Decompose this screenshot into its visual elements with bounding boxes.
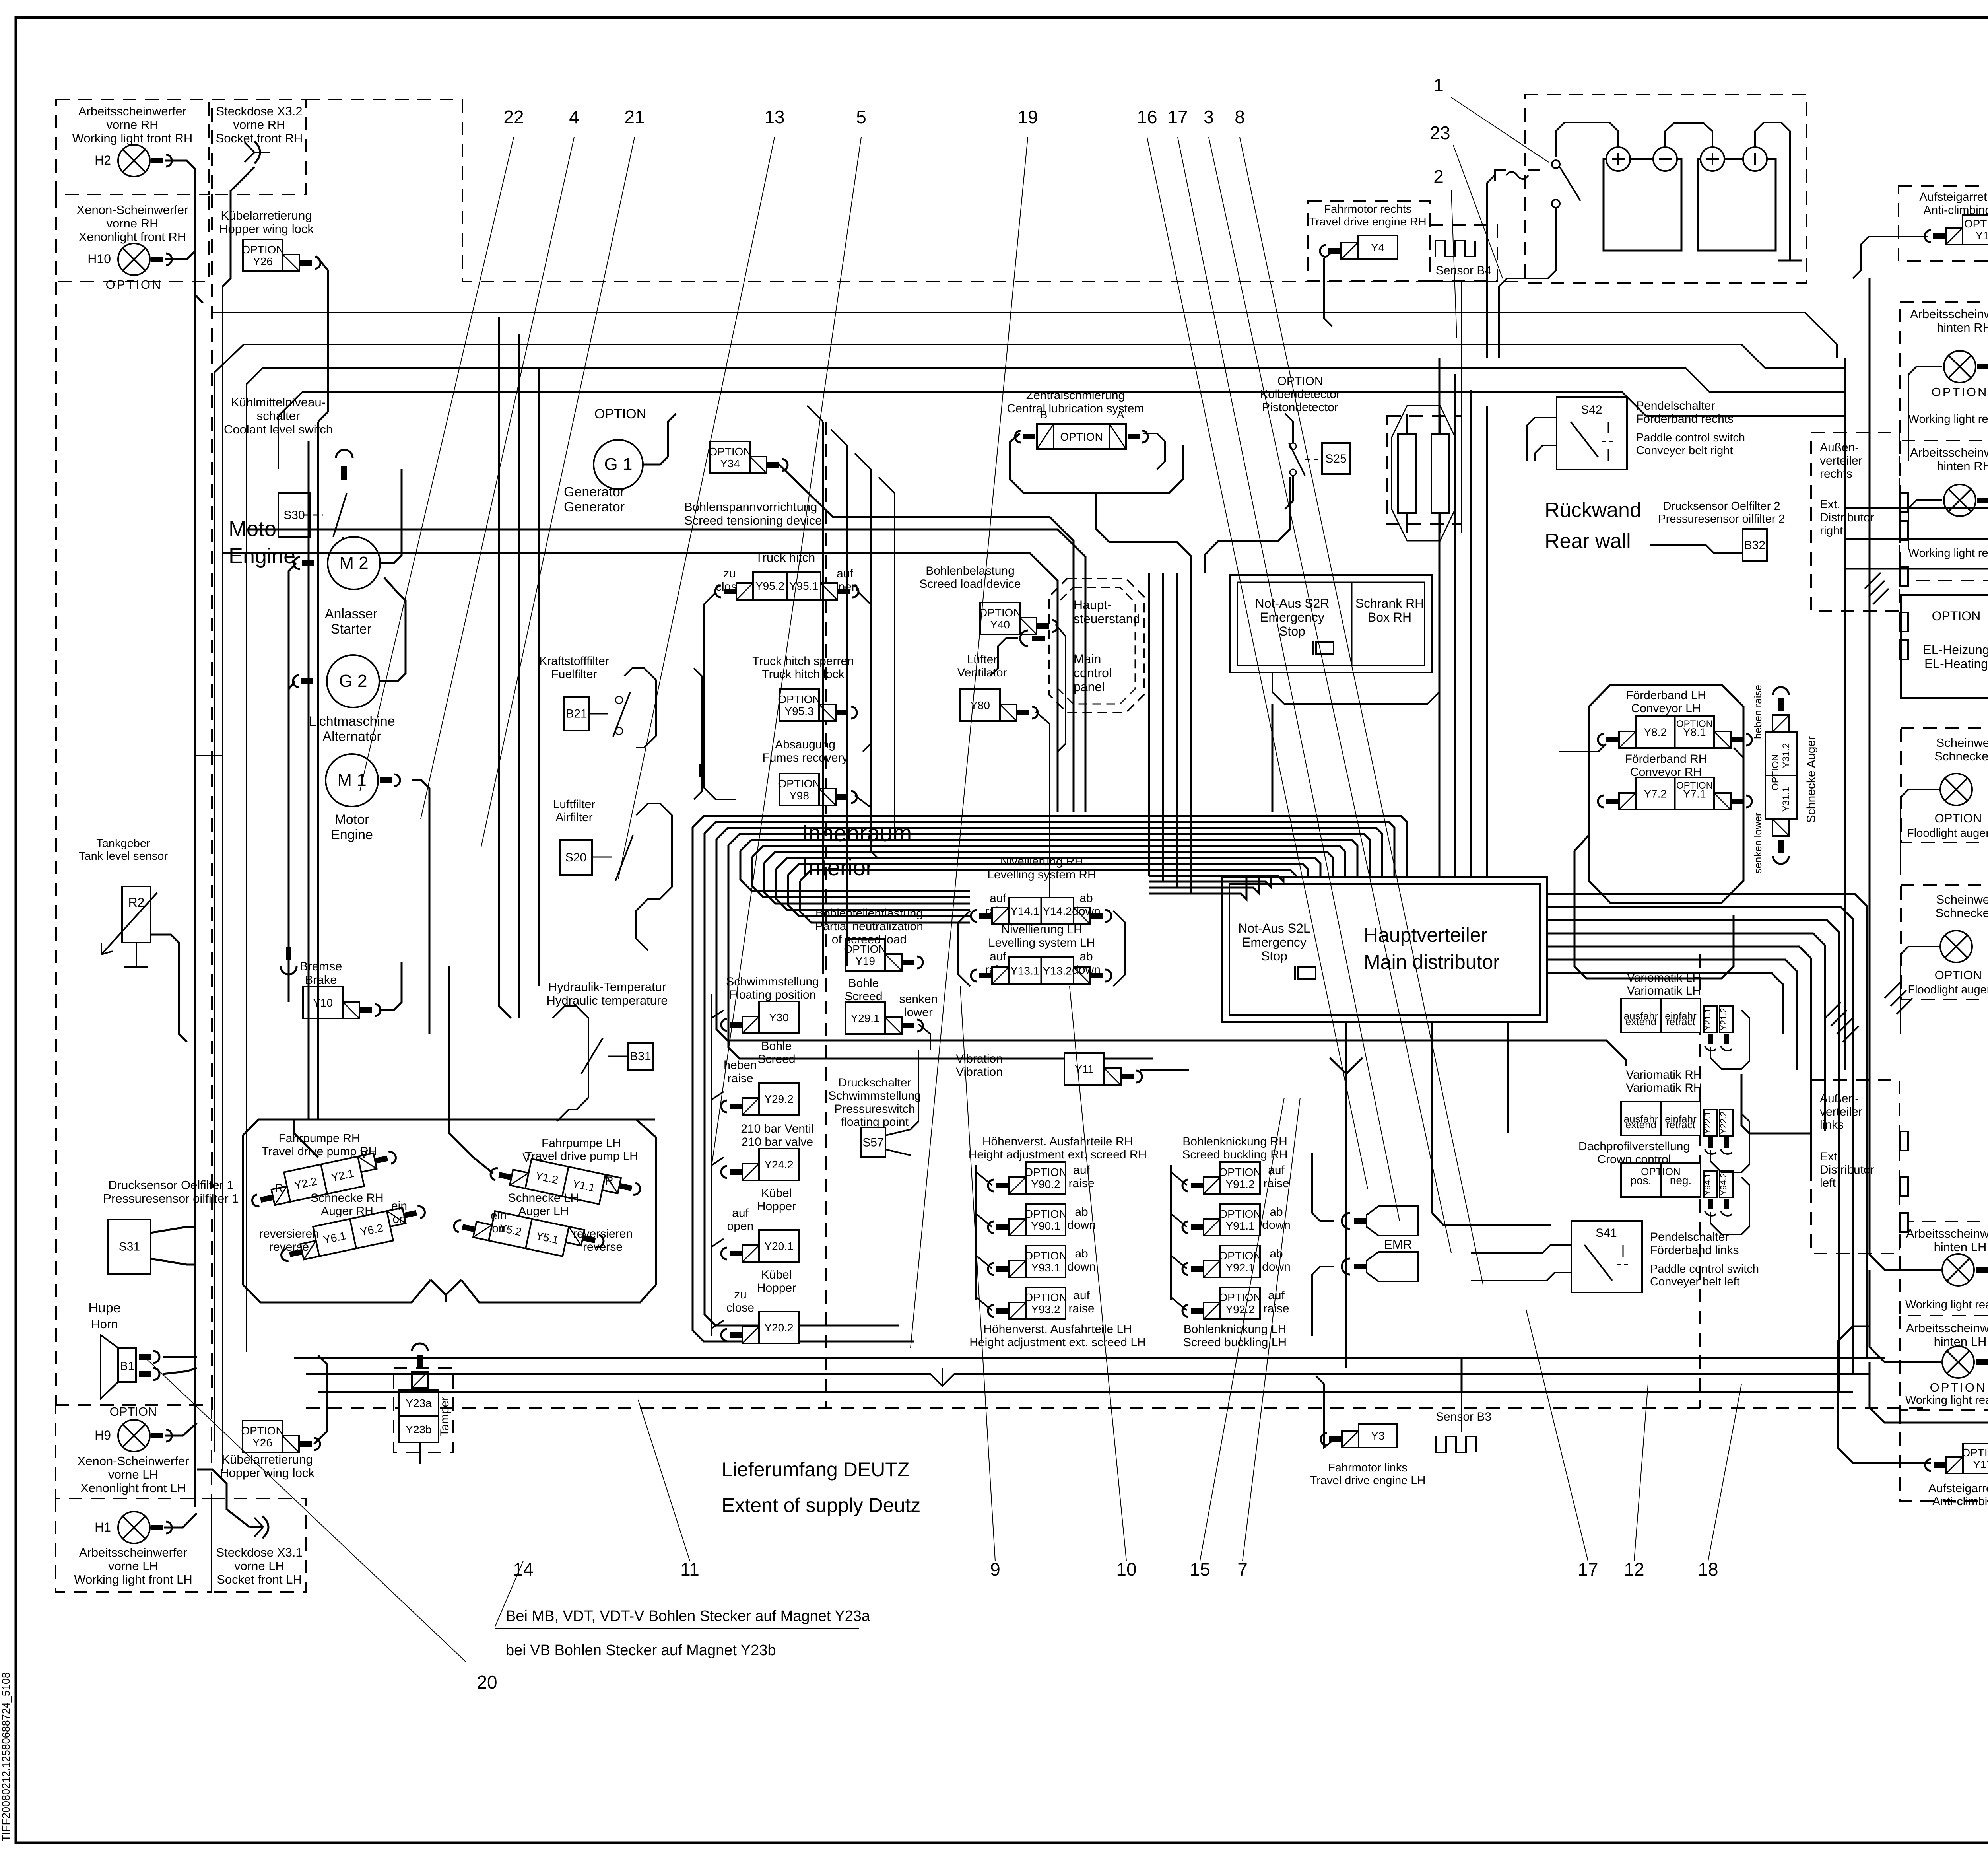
- svg-text:Bohlenknickung RH: Bohlenknickung RH: [1182, 1135, 1287, 1148]
- leader line 8: [1240, 137, 1483, 1285]
- svg-text:Height adjustment ext. screed: Height adjustment ext. screed RH: [969, 1148, 1147, 1161]
- svg-text:Socket front LH: Socket front LH: [217, 1572, 302, 1586]
- bus left horizontal 2: [223, 553, 1058, 812]
- wire fan into hauptverteiler top: [693, 827, 914, 1341]
- lamp H4 working light rear RH: [1944, 484, 1988, 516]
- wire H10 to junction: [165, 251, 195, 259]
- lamp floodlight auger RH: [1940, 774, 1972, 805]
- svg-text:OPTION: OPTION: [1676, 780, 1713, 791]
- svg-text:16: 16: [1137, 107, 1157, 127]
- svg-text:OPTION: OPTION: [1024, 1291, 1067, 1304]
- switch actuator symbol: [1495, 170, 1540, 181]
- svg-text:raise: raise: [1068, 1177, 1094, 1190]
- leader line 22: [360, 137, 514, 791]
- valve Y19 partial neutralization: [844, 939, 923, 971]
- mid trunk to truck hitch: [822, 835, 824, 974]
- valve Y17 anti-climbing LH: [1925, 1444, 1988, 1473]
- svg-text:Emergency: Emergency: [1242, 935, 1307, 949]
- wire pump bus top: [258, 1119, 655, 1121]
- bus vertical bundle pre-HV 3: [1176, 573, 1178, 888]
- valve Y3 travel drive LH: [1321, 1424, 1397, 1448]
- svg-text:Nivellierung RH: Nivellierung RH: [1000, 855, 1083, 868]
- hatch marks ext distributor left 1: [1825, 1002, 1859, 1042]
- svg-text:Kübelarretierung: Kübelarretierung: [221, 1452, 313, 1466]
- svg-text:Drucksensor Oelfilter 2: Drucksensor Oelfilter 2: [1663, 500, 1780, 513]
- svg-text:Y14.2: Y14.2: [1043, 905, 1072, 917]
- svg-text:steuerstand: steuerstand: [1074, 612, 1140, 626]
- connector lug right 5: [1900, 640, 1908, 659]
- svg-text:Xenonlight front LH: Xenonlight front LH: [80, 1481, 186, 1495]
- emergency stop button S2L icon: [1298, 967, 1316, 979]
- EMR plug 1: [1354, 1218, 1366, 1224]
- svg-text:Bei MB, VDT, VDT-V Bohlen Stec: Bei MB, VDT, VDT-V Bohlen Stecker auf Ma…: [506, 1608, 870, 1625]
- svg-text:Y4: Y4: [1371, 241, 1384, 254]
- fan top to mid trunk 1: [807, 406, 823, 422]
- svg-text:Tamper: Tamper: [438, 1397, 451, 1436]
- svg-text:OPTION: OPTION: [1060, 431, 1103, 443]
- dashed left machine column inner: [211, 194, 213, 1410]
- svg-text:Arbeitsscheinwerfer: Arbeitsscheinwerfer: [78, 104, 186, 118]
- svg-text:Y18: Y18: [1976, 229, 1988, 242]
- lamp H2 working light front RH: [95, 145, 172, 177]
- svg-text:Sensor B3: Sensor B3: [1436, 1410, 1491, 1423]
- wire R2 right: [151, 935, 187, 1042]
- wire stub Y93.1: [976, 1256, 992, 1269]
- sensor B4 squarewave: [1435, 241, 1475, 257]
- sensor S25 piston detector: [1322, 443, 1350, 474]
- svg-text:OPTION: OPTION: [978, 606, 1021, 619]
- svg-text:Y34: Y34: [720, 457, 740, 470]
- wire right column trunk: [1844, 358, 1846, 1070]
- sensor S20 airfilter: [560, 840, 592, 875]
- svg-text:Y24.2: Y24.2: [764, 1158, 793, 1171]
- socket X3.1 symbol: [250, 1516, 268, 1538]
- schrank RH box inner: [1237, 582, 1425, 665]
- wire feeder cascade 1: [1846, 508, 1988, 604]
- svg-text:Hydraulic temperature: Hydraulic temperature: [547, 993, 668, 1007]
- wire pump group outline RH: [243, 1119, 431, 1302]
- svg-text:23: 23: [1430, 122, 1450, 143]
- dashed box working light rear LH zone 2: [1900, 1316, 1988, 1410]
- svg-text:Höhenverst. Ausfahrteile LH: Höhenverst. Ausfahrteile LH: [983, 1323, 1132, 1336]
- wire socket X3.2 down: [223, 167, 254, 286]
- wire Y95 right down: [859, 593, 871, 752]
- svg-text:M 2: M 2: [339, 553, 368, 573]
- wire fuse 1 bottom: [1406, 513, 1408, 533]
- fuse 1: [1398, 434, 1416, 513]
- svg-text:13: 13: [764, 107, 784, 127]
- svg-text:auf: auf: [837, 567, 853, 580]
- svg-text:Fahrpumpe RH: Fahrpumpe RH: [278, 1132, 360, 1145]
- wire stub floating col 2: [712, 1092, 724, 1100]
- wire hauptsteuerstand left: [990, 638, 1018, 676]
- leader line bottom 7: [1242, 1098, 1300, 1561]
- lamp floodlight auger LH: [1940, 931, 1972, 962]
- svg-text:Variomatik LH: Variomatik LH: [1627, 984, 1701, 997]
- wire H4 left: [1908, 500, 1942, 549]
- svg-text:auf: auf: [732, 1207, 749, 1220]
- mid trunk 2: [846, 445, 848, 835]
- svg-text:Motor: Motor: [335, 812, 369, 827]
- svg-text:Working light rear RH: Working light rear RH: [1908, 547, 1988, 560]
- switch S41 symbol: [1584, 1245, 1629, 1281]
- wire Y3 feed: [1316, 1376, 1335, 1448]
- svg-text:R2: R2: [128, 895, 145, 910]
- wire feeder cascade 2: [1846, 539, 1988, 624]
- bus wire top 3: [247, 368, 262, 1352]
- wire Y18 left: [1853, 237, 1928, 278]
- hatch marks ext distributor left 2: [1885, 982, 1912, 1014]
- svg-text:Travel drive engine LH: Travel drive engine LH: [1310, 1474, 1426, 1487]
- dashed box working light rear RH zone 2: [1900, 441, 1988, 581]
- lamp H1 working light front LH: [95, 1512, 172, 1543]
- svg-text:Y14.1: Y14.1: [1010, 905, 1039, 917]
- svg-text:OPTION: OPTION: [1219, 1208, 1261, 1220]
- svg-text:Hopper: Hopper: [757, 1200, 796, 1213]
- wire stub Y92.2: [1171, 1297, 1187, 1310]
- svg-text:Sensor B4: Sensor B4: [1436, 264, 1491, 277]
- svg-text:Engine: Engine: [331, 827, 373, 842]
- left trunk 3: [317, 422, 319, 1119]
- wire M2 right exit: [380, 469, 402, 563]
- svg-text:OPTION: OPTION: [1277, 375, 1323, 388]
- svg-text:Screed load device: Screed load device: [919, 577, 1021, 591]
- bus wire bottom 1: [294, 1357, 1885, 1359]
- leader line 2: [1451, 190, 1457, 338]
- svg-text:Xenon-Scheinwerfer: Xenon-Scheinwerfer: [77, 203, 188, 217]
- connector plug filters: [699, 764, 705, 777]
- svg-text:EL-Heizung: EL-Heizung: [1923, 643, 1988, 657]
- svg-text:Floodlight auger LH: Floodlight auger LH: [1908, 983, 1988, 996]
- wire pump V junction: [431, 1280, 461, 1295]
- svg-text:Not-Aus S2L: Not-Aus S2L: [1238, 921, 1310, 935]
- svg-text:lower: lower: [904, 1006, 933, 1019]
- schrank RH divider: [1351, 582, 1353, 665]
- valve Y26 hopper wing lock RH: [241, 239, 320, 271]
- wire S42 feed 2: [1535, 445, 1557, 461]
- wire H3 left: [1870, 1054, 1941, 1270]
- dashed box xenon front LH zone: [56, 1405, 212, 1498]
- svg-text:Hopper wing lock: Hopper wing lock: [220, 1466, 315, 1480]
- svg-text:Working light rear RH: Working light rear RH: [1908, 413, 1988, 426]
- svg-text:Pressuresensor oilfilter 1: Pressuresensor oilfilter 1: [103, 1191, 239, 1205]
- wire stub floating col 1: [712, 1010, 724, 1018]
- svg-text:senken: senken: [899, 993, 938, 1006]
- svg-text:Ext.: Ext.: [1820, 498, 1840, 511]
- svg-text:S25: S25: [1325, 452, 1346, 465]
- svg-text:Hydraulik-Temperatur: Hydraulik-Temperatur: [548, 980, 666, 994]
- svg-text:OPTION: OPTION: [1964, 218, 1988, 230]
- wire S31 out 2: [151, 1259, 195, 1265]
- svg-text:OPTION: OPTION: [110, 1405, 157, 1419]
- svg-text:Y23a: Y23a: [406, 1397, 432, 1409]
- svg-text:Y94.1: Y94.1: [1703, 1173, 1712, 1196]
- svg-text:OPTION: OPTION: [1219, 1166, 1261, 1178]
- svg-text:Y21.2: Y21.2: [1718, 1008, 1728, 1031]
- wire rear RH feed: [1908, 422, 1909, 461]
- svg-text:Lieferumfang DEUTZ: Lieferumfang DEUTZ: [722, 1458, 909, 1481]
- svg-text:Generator: Generator: [564, 484, 625, 499]
- valve pos neg crown control: [1621, 1163, 1701, 1197]
- generator G2 alternator: [327, 655, 379, 707]
- connector lug right 4: [1900, 612, 1908, 632]
- wire M2 G2 junction right: [380, 577, 406, 681]
- wire stub floating col 3: [712, 1157, 724, 1165]
- svg-text:ab: ab: [1079, 950, 1093, 963]
- wire switch down: [1499, 239, 1556, 358]
- svg-text:V: V: [522, 1151, 530, 1164]
- left trunk junction: [195, 755, 223, 756]
- svg-text:Conveyer belt right: Conveyer belt right: [1636, 444, 1733, 457]
- svg-text:Pendelschalter: Pendelschalter: [1636, 399, 1715, 412]
- svg-text:Y98: Y98: [789, 789, 809, 802]
- svg-text:bei VB Bohlen Stecker auf Magn: bei VB Bohlen Stecker auf Magnet Y23b: [506, 1642, 776, 1659]
- valve Y11 vibration: [1064, 1053, 1142, 1085]
- dashed box working light front LH zone: [56, 1498, 212, 1592]
- connector lug left 3: [1900, 1213, 1908, 1232]
- svg-text:5: 5: [856, 107, 866, 127]
- valve Y20.2 hopper close: [721, 1312, 799, 1343]
- svg-text:Paddle control switch: Paddle control switch: [1636, 431, 1745, 444]
- wire lubrication drop: [1096, 493, 1191, 573]
- valve ausfahr einfahr variomatik LH: [1621, 999, 1701, 1032]
- svg-text:heben raise: heben raise: [1752, 685, 1764, 739]
- wire lubrication right: [1143, 433, 1165, 469]
- wire stub Y90.2: [976, 1172, 992, 1185]
- bus left horizontal 1: [247, 529, 1085, 812]
- leader line 5: [712, 137, 861, 1165]
- wire hv bottom drop 3: [1507, 1022, 1509, 1133]
- battery master switch: [1552, 160, 1580, 239]
- svg-text:EMR: EMR: [1384, 1237, 1412, 1252]
- svg-text:control: control: [1074, 666, 1112, 680]
- mid trunk2 to innenraum: [846, 835, 848, 966]
- wire B1 to bus 2: [163, 1368, 197, 1374]
- svg-text:Interior: Interior: [802, 855, 874, 880]
- svg-text:reverse: reverse: [583, 1240, 623, 1254]
- svg-text:4: 4: [569, 107, 579, 127]
- svg-text:Luftfilter: Luftfilter: [553, 798, 596, 811]
- valve central lubrication OPTION: [1015, 424, 1148, 449]
- svg-text:Floodlight auger RH: Floodlight auger RH: [1907, 827, 1988, 840]
- tank level sensor R2: [101, 886, 157, 954]
- svg-text:extend: extend: [1625, 1016, 1656, 1028]
- mid trunk 1: [822, 422, 824, 835]
- lamp H5 working light rear LH: [1930, 1346, 1988, 1394]
- wire pump V drop: [445, 1295, 447, 1302]
- wire hv bottom drop 1: [1345, 1022, 1347, 1368]
- sensor S57 pressure switch: [861, 1127, 885, 1157]
- valve ausfahr einfahr variomatik RH: [1621, 1102, 1701, 1135]
- wire lubrication loop: [1010, 433, 1183, 493]
- svg-text:Y20.2: Y20.2: [764, 1322, 793, 1334]
- svg-text:Y26: Y26: [252, 1436, 272, 1449]
- svg-text:Arbeitsscheinwerfer: Arbeitsscheinwerfer: [1906, 1226, 1988, 1240]
- wire sensor B3 up: [1461, 1392, 1462, 1432]
- svg-text:auf: auf: [990, 892, 1006, 905]
- svg-text:OPTION: OPTION: [709, 445, 751, 458]
- EL-Heizung box: [1901, 595, 1988, 698]
- leader line 21: [481, 137, 635, 847]
- leader line 20: [145, 1357, 466, 1662]
- svg-text:ab: ab: [1075, 1247, 1088, 1260]
- wire Y10 right up: [379, 962, 402, 1010]
- svg-text:Y95.3: Y95.3: [784, 705, 813, 717]
- wire hoehenverst col: [975, 1165, 977, 1300]
- svg-text:Bohlenspannvorrichtung: Bohlenspannvorrichtung: [684, 500, 817, 514]
- hauptsteuerstand plug: [1032, 636, 1045, 641]
- svg-text:down: down: [1067, 1219, 1096, 1232]
- svg-text:Schrank RH: Schrank RH: [1355, 596, 1424, 610]
- svg-text:Y22.1: Y22.1: [1703, 1111, 1712, 1134]
- svg-text:Hupe: Hupe: [88, 1300, 120, 1316]
- svg-text:Rear wall: Rear wall: [1545, 530, 1631, 553]
- svg-text:zu: zu: [734, 1288, 747, 1301]
- svg-text:Aufsteigarretierung LH: Aufsteigarretierung LH: [1928, 1482, 1988, 1495]
- wire stub floating col 5: [712, 1320, 724, 1328]
- switch S41 box: [1571, 1221, 1642, 1292]
- dashed top machine boundary: [306, 99, 462, 100]
- svg-text:left: left: [1820, 1176, 1836, 1189]
- svg-text:H2: H2: [95, 153, 111, 167]
- motor M2 plug: [302, 560, 314, 566]
- svg-text:Screed tensioning device: Screed tensioning device: [684, 513, 822, 527]
- wire airfilter loop: [636, 803, 672, 950]
- svg-text:OPTION: OPTION: [1935, 968, 1982, 982]
- svg-text:right: right: [1820, 524, 1843, 537]
- wire crown drop: [1710, 1177, 1749, 1234]
- svg-text:raise: raise: [1263, 1177, 1289, 1190]
- svg-text:OPTION: OPTION: [1024, 1208, 1067, 1220]
- svg-text:Generator: Generator: [564, 499, 625, 515]
- svg-text:G 1: G 1: [604, 455, 633, 474]
- svg-text:verteiler: verteiler: [1820, 454, 1862, 467]
- wire sensor B4 down: [1461, 281, 1462, 533]
- svg-text:Y90.1: Y90.1: [1031, 1220, 1060, 1232]
- svg-text:vorne RH: vorne RH: [233, 118, 285, 132]
- socket X3.2 symbol: [245, 141, 270, 163]
- left trunk 2: [222, 286, 223, 1471]
- svg-text:Y93.1: Y93.1: [1031, 1261, 1060, 1274]
- battery cell block 2: [1698, 159, 1776, 251]
- svg-text:vorne LH: vorne LH: [108, 1559, 158, 1573]
- switch B21: [589, 692, 630, 737]
- svg-text:Y40: Y40: [990, 618, 1010, 631]
- dashed box socket front LH zone: [212, 1498, 306, 1592]
- svg-text:extend: extend: [1625, 1119, 1656, 1131]
- svg-text:open: open: [727, 1220, 754, 1233]
- svg-text:Bohle: Bohle: [848, 977, 879, 990]
- svg-text:heben: heben: [724, 1059, 757, 1072]
- svg-text:ab: ab: [1079, 892, 1093, 905]
- svg-text:Y30: Y30: [769, 1011, 789, 1024]
- wire bohlenknickung col: [1170, 1165, 1172, 1300]
- svg-text:Y22.2: Y22.2: [1718, 1111, 1728, 1134]
- battery cell block 1: [1604, 159, 1681, 251]
- svg-text:Box RH: Box RH: [1368, 610, 1411, 624]
- svg-text:2: 2: [1433, 166, 1444, 187]
- connector lug right 2: [1900, 521, 1908, 540]
- svg-text:Y26: Y26: [253, 255, 273, 268]
- leader line bottom 15: [1200, 1098, 1284, 1561]
- svg-text:3: 3: [1204, 107, 1214, 127]
- wire stub Y91.2: [1171, 1172, 1187, 1185]
- svg-text:H10: H10: [87, 252, 111, 266]
- bus right of HV 3: [1547, 920, 1839, 1392]
- svg-text:Anti-climbing lock LH: Anti-climbing lock LH: [1932, 1495, 1988, 1508]
- svg-text:Steckdose X3.2: Steckdose X3.2: [216, 104, 302, 118]
- wire right column trunk2: [1869, 278, 1871, 1054]
- bus wire bottom 3: [318, 1391, 1853, 1393]
- lamp H3 working light rear LH: [1942, 1254, 1988, 1286]
- fuse 2: [1431, 434, 1449, 513]
- svg-text:Working light rear LH: Working light rear LH: [1905, 1298, 1988, 1311]
- sensor B21 fuelfilter: [564, 697, 589, 731]
- svg-text:zu: zu: [723, 567, 736, 580]
- wire battery drop 4 into hauptverteiler: [1486, 406, 1488, 877]
- svg-text:Lüfter: Lüfter: [967, 653, 998, 666]
- svg-text:Absaugung: Absaugung: [775, 738, 835, 751]
- switch S20: [592, 835, 633, 881]
- svg-text:Screed: Screed: [757, 1053, 795, 1066]
- svg-text:Dachprofilverstellung: Dachprofilverstellung: [1578, 1140, 1690, 1153]
- svg-text:12: 12: [1624, 1559, 1644, 1580]
- svg-text:OPTION: OPTION: [778, 777, 820, 790]
- svg-text:senken lower: senken lower: [1752, 812, 1764, 874]
- valve pair Y7.2 Y7.1 conveyor RH: [1598, 777, 1752, 810]
- lamp H10 xenon front RH: [87, 243, 172, 292]
- valve Y23 actuator: [412, 1343, 428, 1388]
- svg-text:Aufsteigarretierung RH: Aufsteigarretierung RH: [1919, 190, 1988, 204]
- svg-text:Y17: Y17: [1973, 1458, 1988, 1471]
- svg-text:Truck hitch sperren: Truck hitch sperren: [752, 655, 854, 668]
- valve pair Y5.2 Y5.1 auger LH: [452, 1203, 605, 1264]
- valve pair Y31.1 Y31.2 auger: [1765, 687, 1797, 864]
- switch symbol S30: [303, 450, 353, 568]
- wire conveyor feed left: [1559, 744, 1606, 752]
- svg-text:B31: B31: [630, 1050, 651, 1063]
- svg-text:vorne RH: vorne RH: [107, 118, 159, 132]
- dashed kuebel zone LH: [211, 1405, 212, 1498]
- svg-text:R: R: [605, 1174, 613, 1188]
- svg-text:hinten LH: hinten LH: [1934, 1240, 1987, 1254]
- dashed anti-climbing lock LH zone: [1900, 1410, 1988, 1501]
- wire lubrication left: [1010, 437, 1016, 442]
- wire EMR 1: [1312, 1153, 1334, 1221]
- horn B1 plug 2: [139, 1371, 151, 1377]
- wire feeder cascade 3: [1846, 569, 1988, 643]
- bus right of HV 6: [1547, 960, 1797, 1070]
- wire stub Y93.2: [976, 1297, 992, 1310]
- wire Y26 down to bus: [316, 256, 328, 422]
- wire pump RH top feed: [294, 1119, 318, 1157]
- svg-text:raise: raise: [727, 1072, 753, 1085]
- wire floating col bus: [711, 994, 712, 1336]
- leader line 4: [421, 137, 574, 819]
- fuse hex outline: [1392, 406, 1455, 541]
- valve Y29.2 screed raise: [721, 1083, 799, 1115]
- svg-text:7: 7: [1237, 1559, 1248, 1580]
- sensor S30 coolant level switch: [278, 493, 310, 537]
- dashed left machine column outer: [55, 282, 57, 1405]
- bus vertical bundle pre-HV 2: [1162, 573, 1164, 882]
- dashed mid vertical boundary 2: [1699, 954, 1701, 1408]
- wire piston detector down: [1285, 476, 1293, 509]
- mid trunk 4: [894, 493, 895, 835]
- wire S57 right 1: [885, 1050, 918, 1135]
- svg-text:reversieren: reversieren: [259, 1227, 319, 1240]
- wire G2 plug left vertical: [289, 681, 295, 689]
